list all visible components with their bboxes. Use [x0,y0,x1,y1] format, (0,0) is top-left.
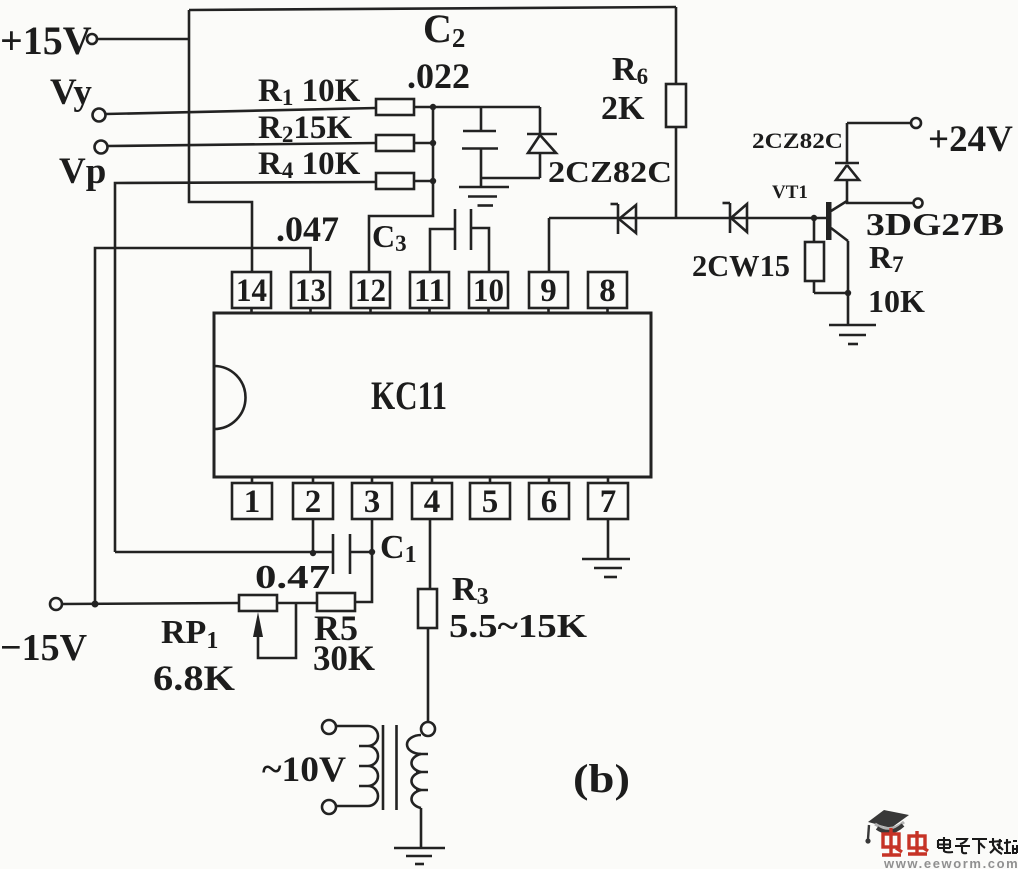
node junction emitter/R7 [845,290,851,296]
wire R2 to node bus [414,142,433,145]
primary winding [368,726,378,806]
node Vp terminal [59,141,108,193]
capacitor C3 [372,209,489,272]
svg-text:~10V: ~10V [262,749,346,789]
wire to +24V [847,122,911,125]
svg-text:C3: C3 [372,218,407,256]
node -15V terminal [0,598,88,669]
svg-text:2CZ82C: 2CZ82C [548,154,672,189]
svg-text:8: 8 [599,273,616,309]
pin 6 [529,477,569,520]
ground pin7 [582,519,630,577]
svg-text:.047: .047 [276,209,339,249]
svg-text:(b): (b) [573,756,630,801]
svg-text:R4 10K: R4 10K [258,146,361,183]
svg-text:11: 11 [414,273,445,309]
capacitor C1 0.47 [255,529,417,596]
svg-text:RP1: RP1 [161,614,218,654]
potentiometer RP1 6.8K [153,595,296,698]
svg-text:KC11: KC11 [371,373,447,418]
wire collector node [847,201,913,203]
svg-text:2CZ82C: 2CZ82C [752,128,843,153]
svg-text:12: 12 [355,273,386,309]
wire node bus to C2/D1 [433,106,540,109]
node junction pin2 [310,550,316,556]
pin 11 [410,272,449,313]
wire R4 to node bus [414,180,433,183]
op-amp U1 KC11 IC body [214,313,651,477]
svg-text:6.8K: 6.8K [153,658,235,698]
ground transformer [394,848,445,864]
svg-text:3: 3 [364,484,381,520]
watermark logo graduation cap [865,810,909,844]
wire pin2 riser [312,519,315,553]
svg-text:13: 13 [295,273,326,309]
node junction R4 [430,178,436,184]
diode D3 2CW15 zener [723,203,748,233]
watermark bug char 2 [908,831,928,855]
pin 3 [352,477,392,520]
svg-text:+15V: +15V [0,18,92,63]
resistor R5 30K [313,593,375,678]
wire pin9 riser [548,218,551,272]
node +15V terminal [0,18,97,63]
wire pin2 net horizontal [115,551,333,554]
pin 13 [291,272,330,313]
svg-text:Vy: Vy [50,72,92,113]
wire RP1 to R5 [277,602,317,605]
ground below C2 [459,187,509,206]
transistor VT1 3DG27B [772,182,848,241]
svg-text:6: 6 [541,484,558,520]
svg-text:www.eeworm.com: www.eeworm.com [883,856,1018,869]
svg-text:2: 2 [305,484,322,520]
wire pin13 to -15V net [95,248,311,604]
node junction -15V [92,601,99,608]
capacitor C2 .022 [407,6,498,187]
wire Vy to R1 [106,108,377,114]
wire secondary to ground [420,808,423,848]
wire left bus vertical to pin14 [189,10,252,272]
node junction R1 [430,104,436,110]
svg-text:R7: R7 [869,239,904,277]
wire R6 to main wire [675,127,678,218]
resistor R4 10K [258,146,414,189]
svg-text:R3: R3 [452,571,489,610]
svg-text:5: 5 [482,484,499,520]
resistor R3 5.5~15K [418,571,588,645]
node +24V terminal [911,118,1013,160]
svg-text:30K: 30K [313,638,375,678]
svg-text:R1 10K: R1 10K [258,73,361,110]
svg-text:R215K: R215K [258,110,352,147]
pin 10 [469,272,508,313]
pin 4 [412,477,452,520]
diode D2 2CZ82C (left pointing) [611,204,637,234]
svg-text:−15V: −15V [0,627,88,669]
svg-text:5.5~15K: 5.5~15K [449,608,588,645]
wire +15V to bus [97,38,189,41]
svg-text:1: 1 [244,484,261,520]
svg-text:7: 7 [600,484,617,520]
wire right bus vertical to R6 [675,7,678,84]
diode D1 2CZ82C (vertical) [527,107,557,178]
svg-text:+24V: +24V [928,119,1013,160]
svg-text:3DG27B: 3DG27B [866,206,1004,242]
transformer T1 ~10V [262,720,435,814]
svg-text:.022: .022 [407,56,470,96]
secondary terminal [421,722,435,736]
node junction pin3/C1 [369,549,375,555]
svg-text:R6: R6 [612,51,648,89]
svg-text:C2: C2 [423,6,465,53]
watermark text 电子下载站 [938,837,1017,854]
wire summing bus vertical to pin12 [369,107,433,272]
wire Vp to R2 [108,143,377,146]
node output terminal [914,199,923,208]
svg-text:VT1: VT1 [772,182,808,203]
svg-text:10K: 10K [868,283,925,319]
svg-text:C1: C1 [380,529,417,568]
resistor R1 10K [258,73,414,115]
node junction base/R7 [811,215,817,221]
svg-text:2CW15: 2CW15 [692,248,790,283]
resistor R6 2K [601,51,686,127]
svg-text:14: 14 [236,273,267,309]
wire R1 to node bus [414,106,433,109]
wire R3 to transformer [427,628,430,722]
wire top bus horizontal [189,7,676,10]
svg-text:10: 10 [473,273,504,309]
resistor R7 10K [805,218,848,293]
primary terminals [322,720,336,734]
ground emitter [829,325,876,344]
svg-text:0.47: 0.47 [255,559,330,596]
pin 9 [529,272,568,313]
svg-text:9: 9 [540,273,557,309]
pin 2 [293,477,333,520]
svg-text:Vp: Vp [59,151,106,192]
pin 12 [351,272,390,313]
wire -15V to RP1 [62,603,239,604]
secondary winding [407,735,421,808]
diode D4 2CZ82C (vertical, top right) [835,123,859,203]
wire pin4 riser [429,519,432,589]
watermark bug char 1 [882,828,902,856]
pin 14 [232,272,271,313]
wire R4 left to pin2 net [115,182,376,552]
node Vy terminal [50,72,106,122]
pin 5 [470,477,510,520]
node junction R2 [430,140,436,146]
pin 7 [588,477,628,520]
core [382,725,385,810]
pin 8 [588,272,627,313]
pin 1 [232,477,272,520]
svg-text:2K: 2K [601,90,645,127]
wire C2 tap to D1 [481,177,540,180]
wire pin3 riser to R5 [355,519,372,602]
wire emitter down to ground [847,241,850,325]
svg-text:4: 4 [424,484,441,520]
resistor R2 15K [258,110,414,151]
wire main horizontal to VT1 base [549,217,826,220]
